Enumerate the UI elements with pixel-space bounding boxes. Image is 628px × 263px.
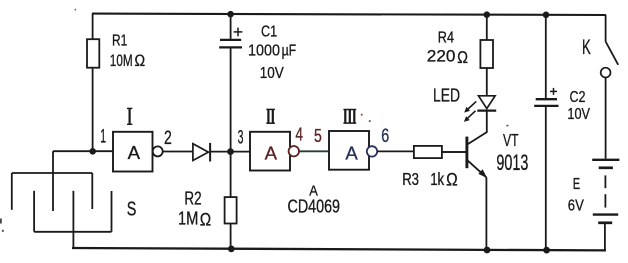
svg-text:10V: 10V — [260, 65, 284, 82]
svg-text:VT: VT — [503, 130, 519, 150]
junction top rail / C1 — [227, 11, 234, 18]
resistor R3 — [414, 146, 466, 158]
battery E — [592, 160, 619, 251]
svg-text:R2: R2 — [184, 187, 201, 208]
pin label 4 — [295, 125, 303, 145]
inverter gate II — [250, 132, 299, 171]
label R2 value — [178, 187, 211, 229]
op-amp U1 inverter I — [113, 132, 163, 172]
svg-text:1k: 1k — [430, 169, 444, 189]
svg-text:C2: C2 — [570, 89, 586, 106]
svg-text:4: 4 — [295, 125, 303, 145]
LED light arrow 2 — [464, 111, 476, 122]
pin label 6 — [381, 126, 389, 147]
label S — [127, 199, 137, 221]
pin label 2 — [164, 128, 172, 149]
junction R1 / pin1 — [89, 148, 96, 155]
pin label 1 — [100, 127, 106, 148]
label numeral I — [127, 108, 132, 124]
wire top supply rail — [92, 14, 606, 15]
svg-text:1: 1 — [100, 127, 106, 148]
LED light arrow 1 — [464, 101, 476, 112]
wire gate III output to R3 — [377, 150, 414, 152]
node pin1 wire — [53, 150, 113, 152]
wire node to gate II — [233, 151, 250, 153]
svg-text:2: 2 — [164, 128, 172, 149]
scan speck top — [75, 9, 77, 11]
scan speck dark — [506, 125, 508, 127]
wire gate I output to diode — [163, 151, 193, 153]
junction bottom rail / R2 — [228, 246, 235, 253]
svg-text:220: 220 — [427, 48, 456, 66]
label C1 value — [248, 23, 296, 81]
label K — [582, 36, 591, 59]
pin label 5 — [314, 126, 322, 146]
capacitor C1 — [219, 14, 242, 151]
svg-text:3: 3 — [238, 128, 244, 149]
svg-text:E: E — [573, 176, 580, 193]
scan speck red — [361, 114, 363, 116]
svg-text:LED: LED — [433, 86, 460, 106]
label numeral III — [343, 110, 356, 124]
svg-text:R4: R4 — [438, 30, 454, 47]
svg-text:5: 5 — [314, 126, 322, 146]
svg-text:C1: C1 — [261, 23, 277, 40]
svg-text:1M: 1M — [178, 209, 198, 229]
label A CD4069 — [288, 183, 341, 217]
svg-text:1000: 1000 — [248, 43, 280, 60]
svg-text:Ω: Ω — [134, 52, 145, 70]
label R3 value — [402, 169, 458, 190]
label R1 value — [110, 33, 146, 71]
svg-text:R1: R1 — [112, 33, 127, 50]
LED VD — [477, 96, 496, 132]
label VT 9013 — [496, 130, 528, 175]
wire gate II to gate III — [299, 150, 329, 152]
svg-text:K: K — [582, 36, 591, 59]
junction top rail / C2 — [543, 12, 550, 19]
inverter gate III — [329, 131, 377, 170]
svg-text:10M: 10M — [110, 52, 133, 70]
label C2 value — [567, 89, 590, 123]
switch K — [601, 15, 619, 159]
sensor S top comb — [12, 173, 93, 210]
resistor R2 — [225, 152, 237, 250]
resistor R4 — [480, 15, 493, 96]
sensor S feed wire — [52, 151, 54, 211]
scan speck left edge — [0, 219, 4, 232]
junction bottom rail / C2 — [543, 247, 550, 254]
pin label 3 — [238, 128, 244, 149]
svg-text:A: A — [265, 142, 278, 163]
label E value — [568, 176, 584, 214]
junction bottom rail / VT emitter — [484, 247, 491, 254]
svg-text:Ω: Ω — [457, 48, 468, 67]
svg-text:9013: 9013 — [496, 150, 528, 175]
svg-text:Ω: Ω — [446, 170, 458, 190]
node pin3 junction — [227, 148, 234, 155]
sensor S bottom comb — [34, 191, 111, 249]
svg-text:10V: 10V — [567, 106, 590, 123]
diode VD1 — [193, 143, 228, 162]
svg-text:A: A — [345, 142, 358, 163]
wire bottom ground rail — [72, 248, 606, 250]
svg-text:6: 6 — [381, 126, 389, 147]
capacitor C2 — [534, 15, 558, 250]
label LED — [433, 86, 460, 106]
svg-text:Ω: Ω — [200, 209, 212, 229]
resistor R1 — [87, 14, 99, 152]
svg-text:R3: R3 — [402, 169, 419, 189]
transistor VT 9013 — [442, 132, 488, 250]
svg-text:6V: 6V — [568, 197, 584, 214]
scan speck green — [369, 120, 371, 122]
svg-text:A: A — [128, 142, 141, 163]
svg-text:µF: µF — [282, 43, 297, 60]
label numeral II — [266, 109, 275, 123]
junction top rail / R4 — [484, 11, 491, 18]
svg-text:CD4069: CD4069 — [288, 197, 341, 217]
label R4 value — [427, 30, 468, 67]
svg-text:S: S — [127, 199, 137, 221]
